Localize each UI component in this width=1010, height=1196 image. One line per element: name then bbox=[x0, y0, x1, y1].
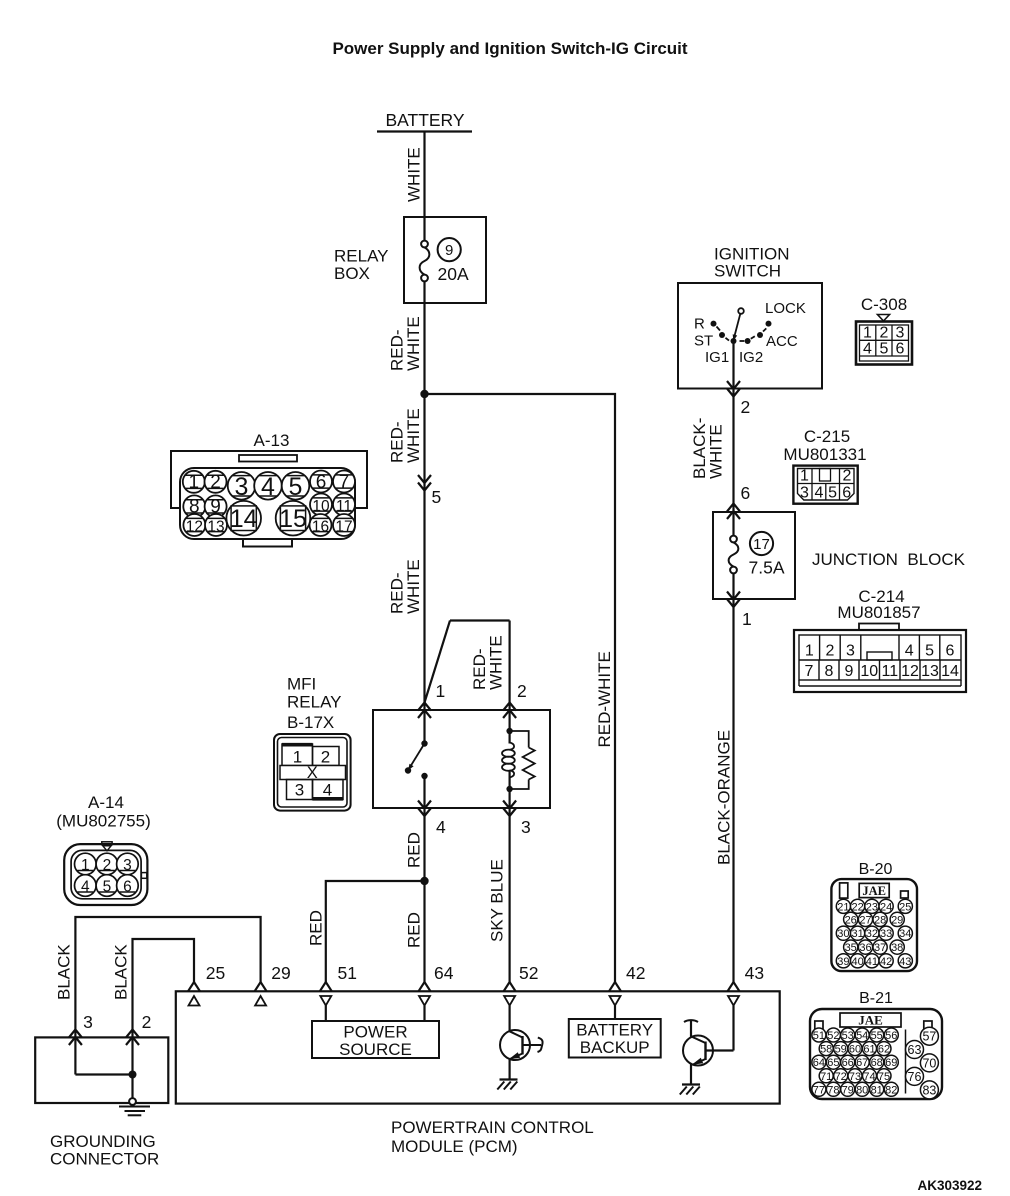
svg-text:52: 52 bbox=[827, 1030, 839, 1042]
B-20 connector bbox=[831, 879, 917, 971]
svg-text:RELAY: RELAY bbox=[287, 692, 342, 711]
svg-text:BLACK: BLACK bbox=[55, 944, 74, 1000]
relay box label bbox=[334, 247, 389, 284]
svg-text:SOURCE: SOURCE bbox=[339, 1040, 412, 1059]
svg-text:WHITE: WHITE bbox=[487, 635, 506, 690]
svg-text:1: 1 bbox=[189, 472, 200, 493]
svg-text:62: 62 bbox=[878, 1044, 890, 1056]
svg-text:33: 33 bbox=[880, 928, 892, 940]
svg-text:41: 41 bbox=[866, 956, 878, 968]
svg-text:64: 64 bbox=[813, 1057, 825, 1069]
svg-text:29: 29 bbox=[271, 963, 290, 983]
svg-text:BATTERY: BATTERY bbox=[576, 1021, 653, 1040]
svg-text:4: 4 bbox=[261, 473, 275, 501]
svg-text:63: 63 bbox=[908, 1043, 922, 1057]
svg-text:14: 14 bbox=[941, 663, 959, 680]
wire relay box to node A (RED-WHITE) bbox=[423, 303, 425, 394]
svg-text:56: 56 bbox=[885, 1030, 897, 1042]
svg-text:25: 25 bbox=[206, 963, 225, 983]
svg-text:5: 5 bbox=[432, 487, 442, 507]
C-215 connector bbox=[793, 466, 857, 504]
A-13 connector body bbox=[171, 451, 367, 547]
svg-text:3: 3 bbox=[83, 1012, 93, 1032]
svg-text:72: 72 bbox=[835, 1071, 847, 1083]
svg-text:A-13: A-13 bbox=[254, 431, 290, 450]
svg-text:IGNITION: IGNITION bbox=[714, 244, 790, 263]
svg-text:3: 3 bbox=[846, 643, 855, 660]
svg-text:38: 38 bbox=[891, 942, 903, 954]
wire node B to PCM pin 51 (RED) bbox=[326, 881, 425, 982]
ground symbol Q2 bbox=[680, 1085, 700, 1095]
ground symbol of grounding connector bbox=[119, 1098, 150, 1115]
svg-text:37: 37 bbox=[874, 942, 886, 954]
B-17X connector bbox=[274, 734, 351, 811]
svg-text:4: 4 bbox=[323, 781, 332, 800]
svg-text:29: 29 bbox=[891, 914, 903, 926]
svg-text:3: 3 bbox=[123, 857, 132, 874]
wire branch to MFI relay pin 2 (RED-WHITE) bbox=[425, 621, 510, 710]
svg-text:2: 2 bbox=[741, 397, 751, 417]
svg-text:75: 75 bbox=[878, 1071, 890, 1083]
svg-text:66: 66 bbox=[842, 1057, 854, 1069]
svg-text:SWITCH: SWITCH bbox=[714, 262, 781, 281]
svg-text:39: 39 bbox=[837, 956, 849, 968]
fuse 9 20A bbox=[420, 217, 469, 303]
svg-text:23: 23 bbox=[866, 901, 878, 913]
svg-text:4: 4 bbox=[905, 643, 914, 660]
junction block arrows out bbox=[727, 592, 740, 608]
grounding connector pin 3 arrow bbox=[69, 1030, 82, 1046]
svg-text:GROUNDING: GROUNDING bbox=[50, 1132, 156, 1151]
A-14 connector bbox=[64, 842, 147, 905]
PCM label bbox=[391, 1118, 594, 1156]
svg-text:25: 25 bbox=[899, 901, 911, 913]
PCM pin 29 bbox=[255, 982, 267, 1006]
svg-text:LOCK: LOCK bbox=[765, 300, 806, 317]
svg-text:77: 77 bbox=[813, 1084, 825, 1096]
svg-text:2: 2 bbox=[843, 468, 852, 485]
svg-text:POWERTRAIN CONTROL: POWERTRAIN CONTROL bbox=[391, 1118, 594, 1137]
ignition switch label bbox=[714, 244, 790, 280]
svg-text:14: 14 bbox=[230, 505, 258, 533]
svg-text:65: 65 bbox=[827, 1057, 839, 1069]
PCM pin 64 bbox=[419, 982, 431, 1006]
grounding connector box bbox=[35, 1037, 168, 1103]
svg-text:22: 22 bbox=[851, 901, 863, 913]
svg-text:13: 13 bbox=[921, 663, 939, 680]
svg-text:71: 71 bbox=[820, 1071, 832, 1083]
svg-text:2: 2 bbox=[142, 1012, 152, 1032]
svg-text:BOX: BOX bbox=[334, 264, 370, 283]
svg-text:32: 32 bbox=[866, 928, 878, 940]
wire node A down to MFI relay pin 1 bbox=[423, 394, 425, 710]
svg-text:12: 12 bbox=[901, 663, 919, 680]
svg-text:JUNCTION BLOCK: JUNCTION BLOCK bbox=[812, 550, 966, 569]
svg-text:RED-WHITE: RED-WHITE bbox=[595, 651, 614, 747]
svg-text:6: 6 bbox=[896, 341, 905, 358]
svg-text:52: 52 bbox=[519, 963, 538, 983]
svg-text:C-308: C-308 bbox=[861, 295, 907, 314]
svg-text:BLACK-ORANGE: BLACK-ORANGE bbox=[715, 730, 734, 865]
svg-text:27: 27 bbox=[859, 914, 871, 926]
svg-text:78: 78 bbox=[827, 1084, 839, 1096]
svg-text:WHITE: WHITE bbox=[404, 316, 423, 371]
svg-text:43: 43 bbox=[745, 963, 764, 983]
svg-text:5: 5 bbox=[289, 473, 303, 501]
svg-text:AK303922: AK303922 bbox=[917, 1178, 982, 1193]
svg-text:JAE: JAE bbox=[858, 1013, 883, 1028]
A-14 connector label bbox=[56, 793, 151, 831]
svg-text:ACC: ACC bbox=[766, 333, 798, 350]
relay box bbox=[404, 217, 486, 303]
node A junction bbox=[420, 390, 428, 398]
svg-text:SKY BLUE: SKY BLUE bbox=[488, 859, 507, 942]
svg-text:79: 79 bbox=[842, 1084, 854, 1096]
svg-text:83: 83 bbox=[922, 1083, 936, 1097]
svg-text:58: 58 bbox=[820, 1044, 832, 1056]
wire PCM pin 25 to grounding connector pin 2 (BLACK) bbox=[133, 939, 195, 1037]
svg-text:B-20: B-20 bbox=[859, 861, 893, 878]
svg-text:3: 3 bbox=[800, 485, 809, 502]
grounding connector label bbox=[50, 1132, 159, 1169]
svg-text:10: 10 bbox=[312, 498, 330, 515]
svg-text:1: 1 bbox=[742, 609, 752, 629]
svg-text:17: 17 bbox=[753, 536, 770, 553]
svg-text:RED: RED bbox=[405, 912, 424, 948]
svg-text:A-14: A-14 bbox=[88, 793, 124, 812]
svg-text:WHITE: WHITE bbox=[404, 559, 423, 614]
svg-text:42: 42 bbox=[626, 963, 645, 983]
PCM box bbox=[176, 991, 780, 1103]
power source block bbox=[312, 1006, 439, 1059]
svg-text:6: 6 bbox=[741, 483, 751, 503]
svg-text:7: 7 bbox=[339, 472, 350, 493]
svg-text:MODULE (PCM): MODULE (PCM) bbox=[391, 1137, 518, 1156]
svg-text:1: 1 bbox=[436, 681, 446, 701]
svg-text:WHITE: WHITE bbox=[707, 424, 726, 479]
transistor Q2 battery backup driver bbox=[683, 1006, 734, 1085]
grounding connector pin 2 arrow bbox=[126, 1030, 139, 1046]
svg-text:4: 4 bbox=[863, 341, 872, 358]
svg-text:WHITE: WHITE bbox=[405, 147, 424, 202]
svg-text:3: 3 bbox=[295, 781, 304, 800]
svg-text:4: 4 bbox=[814, 485, 823, 502]
wire MFI relay pin 3 to PCM pin 52 (SKY BLUE) bbox=[509, 808, 511, 982]
wire node A to PCM pin 42 (RED-WHITE) bbox=[425, 394, 616, 982]
svg-text:81: 81 bbox=[871, 1084, 883, 1096]
svg-text:10: 10 bbox=[860, 663, 878, 680]
svg-text:1: 1 bbox=[863, 325, 872, 342]
grounding connector internal wires bbox=[75, 1037, 136, 1098]
svg-text:68: 68 bbox=[871, 1057, 883, 1069]
svg-text:BACKUP: BACKUP bbox=[580, 1038, 650, 1057]
ignition switch box bbox=[678, 283, 822, 389]
svg-text:5: 5 bbox=[828, 485, 837, 502]
wire label BLACK-WHITE bbox=[690, 418, 726, 479]
svg-text:RED: RED bbox=[307, 910, 326, 946]
svg-text:9: 9 bbox=[845, 663, 854, 680]
svg-text:1: 1 bbox=[293, 748, 302, 767]
B-21 connector bbox=[810, 1009, 942, 1099]
svg-text:11: 11 bbox=[336, 498, 352, 515]
svg-text:21: 21 bbox=[837, 901, 849, 913]
svg-text:67: 67 bbox=[856, 1057, 868, 1069]
svg-text:82: 82 bbox=[885, 1084, 897, 1096]
svg-text:61: 61 bbox=[863, 1044, 875, 1056]
svg-text:28: 28 bbox=[874, 914, 886, 926]
svg-text:MU801331: MU801331 bbox=[783, 445, 866, 464]
C-214 connector label bbox=[837, 587, 920, 622]
svg-text:20A: 20A bbox=[438, 264, 469, 284]
svg-text:BLACK: BLACK bbox=[112, 944, 131, 1000]
svg-text:15: 15 bbox=[279, 505, 307, 533]
svg-text:CONNECTOR: CONNECTOR bbox=[50, 1150, 159, 1169]
svg-text:4: 4 bbox=[81, 878, 90, 895]
svg-text:1: 1 bbox=[805, 643, 814, 660]
svg-text:2: 2 bbox=[517, 681, 527, 701]
svg-text:42: 42 bbox=[880, 956, 892, 968]
svg-text:12: 12 bbox=[186, 518, 203, 535]
svg-text:51: 51 bbox=[338, 963, 357, 983]
svg-text:16: 16 bbox=[312, 518, 329, 535]
svg-text:ST: ST bbox=[694, 333, 713, 350]
svg-text:24: 24 bbox=[880, 901, 892, 913]
svg-text:2: 2 bbox=[880, 325, 889, 342]
svg-text:5: 5 bbox=[880, 341, 889, 358]
svg-text:RELAY: RELAY bbox=[334, 247, 389, 266]
battery B+ terminal bbox=[377, 110, 472, 132]
svg-text:3: 3 bbox=[896, 325, 905, 342]
node B junction bbox=[420, 877, 428, 885]
svg-text:IG1: IG1 bbox=[705, 349, 729, 366]
svg-text:17: 17 bbox=[335, 518, 352, 535]
svg-text:7.5A: 7.5A bbox=[749, 558, 785, 578]
connector pass-through arrow 5 bbox=[418, 475, 431, 491]
svg-text:74: 74 bbox=[863, 1071, 875, 1083]
svg-text:5: 5 bbox=[925, 643, 934, 660]
svg-text:BATTERY: BATTERY bbox=[385, 110, 464, 130]
svg-text:RED: RED bbox=[405, 832, 424, 868]
svg-text:55: 55 bbox=[871, 1030, 883, 1042]
svg-text:51: 51 bbox=[813, 1030, 825, 1042]
svg-text:B-17X: B-17X bbox=[287, 713, 334, 732]
svg-text:26: 26 bbox=[845, 914, 857, 926]
PCM pin 51 bbox=[320, 982, 332, 1006]
svg-text:3: 3 bbox=[521, 817, 531, 837]
wire label RED-WHITE bbox=[388, 408, 424, 463]
svg-text:6: 6 bbox=[316, 472, 327, 493]
svg-text:7: 7 bbox=[805, 663, 814, 680]
wire MFI relay pin 4 to PCM pin 64 (RED) bbox=[423, 808, 425, 982]
junction block fuse box bbox=[713, 512, 795, 599]
fuse 17 7.5A bbox=[729, 512, 785, 599]
svg-text:35: 35 bbox=[845, 942, 857, 954]
A-13 pins 1-17 bbox=[183, 471, 355, 537]
ground symbol Q1 bbox=[497, 1080, 517, 1090]
svg-text:5: 5 bbox=[103, 878, 112, 895]
svg-text:69: 69 bbox=[885, 1057, 897, 1069]
svg-text:Power Supply and Ignition Swit: Power Supply and Ignition Switch-IG Circ… bbox=[332, 39, 687, 58]
svg-text:11: 11 bbox=[881, 663, 898, 680]
svg-text:MU801857: MU801857 bbox=[837, 603, 920, 622]
C-308 connector bbox=[856, 315, 912, 365]
svg-text:1: 1 bbox=[81, 857, 90, 874]
transistor Q1 output driver bbox=[500, 1006, 543, 1080]
MFI relay box bbox=[373, 710, 550, 808]
svg-text:POWER: POWER bbox=[343, 1023, 407, 1042]
svg-text:53: 53 bbox=[842, 1030, 854, 1042]
svg-text:(MU802755): (MU802755) bbox=[56, 812, 151, 831]
svg-text:6: 6 bbox=[123, 878, 132, 895]
MFI relay switch bbox=[405, 710, 428, 808]
svg-text:54: 54 bbox=[856, 1030, 868, 1042]
svg-text:9: 9 bbox=[445, 242, 453, 259]
svg-text:6: 6 bbox=[946, 643, 955, 660]
svg-text:WHITE: WHITE bbox=[404, 408, 423, 463]
svg-text:6: 6 bbox=[842, 485, 851, 502]
svg-text:4: 4 bbox=[436, 817, 446, 837]
wire ignition switch IG2 down (BLACK-WHITE) bbox=[732, 341, 734, 512]
connector arrow at ignition switch exit bbox=[727, 381, 740, 397]
svg-text:40: 40 bbox=[851, 956, 863, 968]
svg-text:13: 13 bbox=[207, 518, 224, 535]
svg-text:76: 76 bbox=[908, 1070, 922, 1084]
svg-text:30: 30 bbox=[837, 928, 849, 940]
svg-text:43: 43 bbox=[899, 956, 911, 968]
svg-text:3: 3 bbox=[235, 473, 249, 501]
junction block arrows in bbox=[727, 504, 740, 520]
wire PCM pin 29 to grounding connector pin 3 (BLACK) bbox=[75, 917, 260, 1037]
svg-text:2: 2 bbox=[103, 857, 112, 874]
MFI relay label bbox=[287, 674, 342, 732]
svg-text:B-21: B-21 bbox=[859, 990, 893, 1007]
MFI relay pin 2 arrow bbox=[503, 703, 516, 719]
PCM pin 25 bbox=[188, 982, 200, 1006]
svg-text:80: 80 bbox=[856, 1084, 868, 1096]
PCM pin 42 bbox=[609, 982, 621, 1006]
wire label RED-WHITE lower bbox=[388, 559, 424, 614]
wire battery to relay box (WHITE) bbox=[423, 132, 425, 218]
svg-text:JAE: JAE bbox=[862, 884, 886, 898]
svg-text:2: 2 bbox=[210, 472, 221, 493]
svg-text:R: R bbox=[694, 316, 705, 333]
svg-text:8: 8 bbox=[825, 663, 834, 680]
MFI relay pin 1 arrow bbox=[418, 703, 431, 719]
svg-text:31: 31 bbox=[851, 928, 863, 940]
svg-text:2: 2 bbox=[825, 643, 834, 660]
svg-text:59: 59 bbox=[835, 1044, 847, 1056]
C-214 connector bbox=[794, 624, 966, 693]
svg-text:2: 2 bbox=[321, 748, 330, 767]
ignition switch contacts and lever bbox=[694, 300, 806, 366]
MFI relay pin 4 arrow bbox=[418, 801, 431, 817]
C-215 connector label bbox=[783, 427, 866, 464]
svg-text:57: 57 bbox=[922, 1030, 936, 1044]
wire label RED-WHITE at pin 2 bbox=[470, 635, 506, 690]
MFI relay coil suppression resistor bbox=[510, 731, 535, 789]
MFI relay pin 3 arrow bbox=[503, 801, 516, 817]
PCM pin 52 bbox=[504, 982, 516, 1006]
svg-text:73: 73 bbox=[849, 1071, 861, 1083]
wire junction block to PCM pin 43 (BLACK-ORANGE) bbox=[732, 599, 734, 982]
wire label RED-WHITE bbox=[388, 316, 424, 371]
svg-text:34: 34 bbox=[899, 928, 911, 940]
svg-text:70: 70 bbox=[922, 1056, 936, 1070]
svg-text:IG2: IG2 bbox=[739, 349, 763, 366]
svg-text:36: 36 bbox=[859, 942, 871, 954]
battery backup block bbox=[569, 1006, 661, 1058]
MFI relay coil bbox=[502, 710, 515, 808]
svg-text:1: 1 bbox=[800, 468, 809, 485]
PCM pin 43 bbox=[728, 982, 740, 1006]
svg-text:MFI: MFI bbox=[287, 674, 316, 693]
svg-text:64: 64 bbox=[434, 963, 454, 983]
svg-text:60: 60 bbox=[849, 1044, 861, 1056]
svg-text:C-215: C-215 bbox=[804, 427, 850, 446]
